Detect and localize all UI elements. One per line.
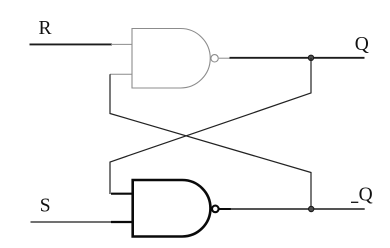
nand gate U2 body	[133, 180, 211, 237]
svg-text:Q: Q	[355, 34, 369, 55]
wire Q output	[230, 57, 365, 59]
wire Qbar output	[230, 208, 365, 210]
wire R input	[30, 43, 113, 45]
nand gate U1 body	[132, 29, 210, 89]
nand gate U2 inversion bubble	[212, 206, 219, 213]
nand gate U2 input lead pin1	[111, 193, 133, 195]
node junction bottom (Qbar)	[309, 206, 314, 211]
wire feedback Q to U2 input	[110, 58, 311, 194]
nand gate U1 inversion bubble	[211, 55, 218, 62]
label Qbar overbar	[351, 201, 358, 203]
svg-text:R: R	[39, 18, 52, 39]
wire S input	[31, 221, 113, 223]
svg-text:S: S	[40, 195, 51, 216]
nand gate U2 input lead pin2	[111, 221, 133, 223]
wire feedback Qbar to U1 input	[110, 74, 311, 209]
node junction top (Q)	[308, 55, 313, 60]
nand gate U1 output lead	[219, 57, 231, 59]
nand gate U2 output lead	[219, 208, 231, 210]
nand gate U1 input lead pin2	[110, 73, 132, 75]
svg-text:Q: Q	[359, 185, 373, 206]
nand gate U1 input lead pin1	[111, 43, 132, 45]
